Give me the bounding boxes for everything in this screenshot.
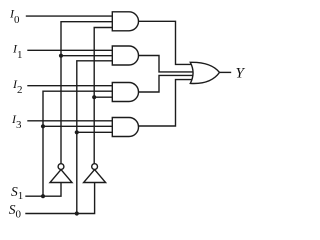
wire I0 input line (27, 15, 115, 17)
svg-text:I2: I2 (12, 77, 23, 96)
and-gate A2 (112, 46, 138, 65)
wire S1' branch to A2 (61, 55, 114, 57)
junction dot S1/A4 (41, 124, 45, 128)
svg-text:S1: S1 (11, 184, 23, 202)
junction dot S0/A4 (75, 130, 79, 134)
svg-text:I1: I1 (12, 41, 23, 60)
inverter U1 bubble (58, 164, 64, 170)
wire A3 output to OR (138, 75, 197, 92)
wire OR output to Y (220, 71, 231, 73)
svg-text:I0: I0 (9, 6, 20, 25)
junction dot S1'/A2 (59, 54, 63, 58)
junction dot S0'/A3 (92, 95, 96, 99)
wire S1' riser (inverter U1 output net) (61, 22, 114, 164)
wire A4 output to OR (138, 80, 197, 126)
wire I2 input line (28, 85, 114, 87)
svg-text:Y: Y (236, 65, 246, 81)
wire S1 riser (net S1) (43, 91, 114, 196)
wire A2 output to OR (138, 56, 197, 72)
and-gate A1 (112, 12, 138, 31)
wire S0 line (26, 183, 95, 214)
inverter U2 bubble (92, 164, 98, 170)
wire S0 riser (net S0) (77, 61, 114, 214)
and-gate A3 (112, 83, 138, 102)
svg-text:S0: S0 (9, 202, 22, 220)
wire S1 line (26, 183, 61, 197)
wire S0' riser (inverter U2 output net) (94, 28, 114, 164)
wire S0' branch to A3 (94, 96, 114, 98)
inverter U1 triangle (50, 170, 72, 183)
or-gate U3 (190, 62, 219, 83)
wire S1 branch to A4 (43, 125, 114, 127)
wire S0 branch to A4 (77, 131, 114, 133)
junction dot S0 line (75, 211, 79, 215)
junction dot S1 line (41, 194, 45, 198)
wire I1 input line (28, 49, 114, 51)
wire A1 output to OR (138, 21, 197, 64)
inverter U2 triangle (84, 170, 106, 183)
svg-text:I3: I3 (11, 112, 22, 131)
and-gate A4 (112, 118, 138, 137)
wire I3 input line (28, 120, 114, 122)
